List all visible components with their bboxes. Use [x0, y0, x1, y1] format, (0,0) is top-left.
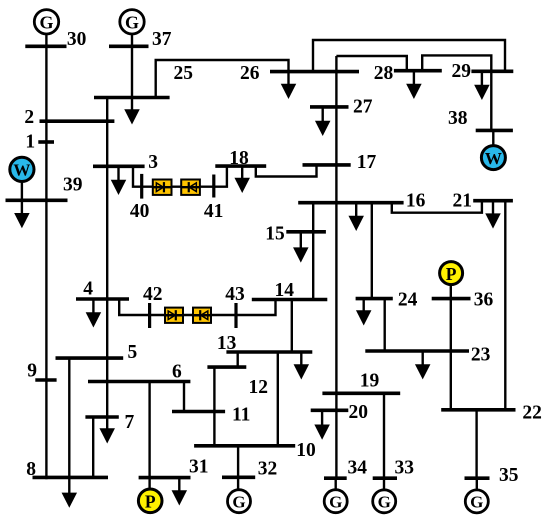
svg-text:25: 25 [174, 63, 194, 84]
svg-text:6: 6 [172, 362, 182, 383]
svg-text:7: 7 [125, 412, 135, 433]
svg-text:32: 32 [258, 459, 278, 480]
svg-text:G: G [232, 492, 245, 511]
svg-text:35: 35 [499, 465, 519, 486]
svg-text:18: 18 [229, 148, 249, 169]
svg-text:31: 31 [189, 457, 209, 478]
svg-text:12: 12 [249, 377, 269, 398]
svg-text:42: 42 [143, 284, 163, 305]
svg-text:23: 23 [471, 345, 491, 366]
svg-text:38: 38 [448, 108, 468, 129]
svg-text:34: 34 [348, 458, 368, 479]
svg-text:28: 28 [374, 63, 394, 84]
svg-text:36: 36 [474, 290, 494, 311]
svg-text:G: G [329, 492, 342, 511]
svg-text:G: G [39, 13, 53, 33]
svg-text:29: 29 [452, 61, 472, 82]
svg-text:9: 9 [27, 361, 37, 382]
svg-text:1: 1 [25, 132, 35, 153]
svg-text:40: 40 [130, 201, 150, 222]
svg-text:19: 19 [360, 371, 380, 392]
svg-text:13: 13 [217, 333, 237, 354]
svg-text:43: 43 [225, 284, 245, 305]
svg-text:27: 27 [353, 96, 373, 117]
svg-text:33: 33 [395, 457, 415, 478]
svg-text:G: G [125, 13, 139, 33]
svg-text:22: 22 [522, 402, 542, 423]
svg-text:15: 15 [265, 223, 285, 244]
svg-text:2: 2 [24, 107, 34, 128]
svg-text:20: 20 [349, 402, 369, 423]
svg-text:P: P [145, 492, 156, 512]
svg-text:11: 11 [232, 405, 250, 426]
svg-text:39: 39 [63, 174, 83, 195]
svg-text:26: 26 [240, 63, 260, 84]
svg-text:16: 16 [406, 190, 426, 211]
svg-text:14: 14 [275, 280, 295, 301]
svg-text:41: 41 [204, 201, 224, 222]
svg-text:8: 8 [26, 459, 36, 480]
svg-text:G: G [470, 493, 483, 512]
svg-text:37: 37 [152, 29, 172, 50]
svg-text:24: 24 [398, 290, 418, 311]
svg-text:4: 4 [83, 279, 93, 300]
svg-text:W: W [485, 149, 502, 168]
svg-text:G: G [378, 493, 391, 512]
svg-text:10: 10 [296, 440, 316, 461]
svg-text:5: 5 [128, 342, 138, 363]
svg-text:21: 21 [453, 191, 473, 212]
svg-text:30: 30 [67, 29, 87, 50]
svg-text:3: 3 [148, 152, 158, 173]
svg-text:W: W [13, 161, 30, 180]
svg-text:17: 17 [357, 152, 377, 173]
svg-text:P: P [446, 264, 457, 284]
